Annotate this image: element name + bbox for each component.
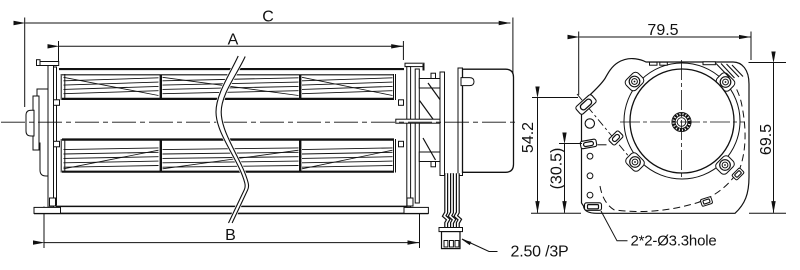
left hub screw upper <box>54 100 60 106</box>
motor boss NE <box>715 71 737 93</box>
connector leader line <box>462 239 498 252</box>
small hole 1 <box>587 153 593 159</box>
dimension C line <box>25 22 510 24</box>
screw SE <box>720 160 731 171</box>
dimension 30.5 line <box>564 144 566 213</box>
motor standoff lower screw <box>431 162 436 167</box>
small tab SE arc 1 <box>732 168 745 181</box>
impeller divider 1 top band <box>160 75 162 100</box>
left top flange lip <box>37 60 41 66</box>
dimension 54.2 line <box>537 98 539 213</box>
impeller top band blades segment 3 <box>302 77 393 95</box>
fan axis centerline <box>1 121 518 123</box>
svg-text:69.5: 69.5 <box>758 124 775 155</box>
small hole 2 <box>587 173 593 179</box>
motor mount plate A <box>440 72 445 176</box>
mounting tab bottom <box>585 203 602 211</box>
motor horizontal centerline <box>620 121 745 123</box>
dimension B extension line left <box>43 207 45 249</box>
impeller top band right edge <box>393 74 395 100</box>
impeller bottom band left edge <box>60 139 62 173</box>
impeller bottom band top edge <box>62 138 394 140</box>
scroll housing outline <box>582 59 750 214</box>
mounting bolt dash-dot line <box>577 94 640 170</box>
impeller divider 2 bottom band <box>299 140 301 172</box>
dimension A line <box>59 45 403 47</box>
impeller top band bottom edge <box>62 98 394 100</box>
mounting rail bottom <box>34 212 428 214</box>
right mounting foot <box>404 207 428 213</box>
right bottom screw <box>407 198 413 206</box>
housing top rail <box>59 68 404 70</box>
right side plate <box>407 67 411 208</box>
dimension 69.5 line <box>773 63 775 213</box>
left bottom screw <box>50 198 56 206</box>
screw NW <box>629 76 640 87</box>
shaft boss knurled ring <box>672 112 691 131</box>
small hole big <box>585 119 594 128</box>
dimension B line <box>45 242 420 244</box>
housing bottom edge <box>56 205 407 207</box>
motor boss SW <box>624 151 646 173</box>
impeller divider 1 bottom band <box>160 140 162 172</box>
impeller bottom band blades segment 1 <box>64 148 159 169</box>
motor standoff upper <box>419 79 440 89</box>
small tab SE arc 2 <box>700 196 713 206</box>
dimension 30.5 extension top <box>559 143 582 145</box>
motor boss NW <box>624 71 646 93</box>
impeller divider 2 top band <box>299 75 301 100</box>
svg-text:(30.5): (30.5) <box>549 148 566 190</box>
top edge notch 2 <box>660 62 668 65</box>
left mounting foot <box>34 207 61 213</box>
motor standoff lower <box>419 152 440 162</box>
left top flange <box>37 62 59 66</box>
left bearing block <box>37 89 48 176</box>
dimension C extension line right <box>512 18 514 81</box>
left inner plate <box>54 67 57 205</box>
connector pin slot 1 <box>444 241 448 248</box>
screw SW <box>630 157 641 168</box>
dimension A extension line left <box>58 41 60 64</box>
shaft boss inner ring <box>675 116 688 129</box>
motor mount plate B <box>458 68 463 176</box>
impeller volute dashed curve <box>600 88 745 212</box>
right top flange <box>405 63 424 66</box>
motor shaft <box>396 119 441 123</box>
impeller top band blades segment 1 <box>64 77 159 95</box>
motor lead wires <box>444 173 460 227</box>
motor ear tab <box>461 78 474 86</box>
impeller top band blades segment 2 <box>163 77 299 95</box>
motor body <box>463 69 514 172</box>
dimension A extension line right <box>402 41 404 60</box>
dimension 79.5 extension line right <box>750 32 752 61</box>
top edge notch 1 <box>650 62 658 65</box>
impeller bottom band bottom edge <box>62 171 394 173</box>
left hub screw lower <box>54 141 60 147</box>
right bracket plate <box>415 69 419 203</box>
left bearing bump <box>26 110 34 136</box>
svg-text:2*2-Ø3.3hole: 2*2-Ø3.3hole <box>631 233 717 250</box>
connector body <box>442 232 461 249</box>
right hub screw upper <box>399 100 404 106</box>
connector pin slot 3 <box>455 241 459 248</box>
svg-text:54.2: 54.2 <box>520 122 537 153</box>
left side plate <box>48 66 54 208</box>
right hub screw lower <box>399 141 404 147</box>
connector cap <box>439 228 463 232</box>
break line mask <box>216 56 249 223</box>
impeller bottom band blades segment 2 <box>163 148 299 169</box>
mounting tab upper-left <box>575 94 597 115</box>
break line left stroke <box>216 56 245 223</box>
motor brace diagonal 1 <box>428 83 441 101</box>
dimension B extension line right <box>419 210 421 249</box>
svg-text:C: C <box>262 8 274 25</box>
right top flange lip <box>423 64 425 71</box>
dimension 69.5 extension bottom <box>749 212 786 214</box>
break line right stroke <box>221 57 248 224</box>
small hole 3 <box>587 192 593 198</box>
svg-text:79.5: 79.5 <box>647 22 678 39</box>
top edge notch 3 <box>703 62 715 65</box>
motor opening circle <box>624 63 740 179</box>
motor brace diagonal 2 <box>420 101 435 121</box>
impeller top band left edge <box>60 74 62 100</box>
dimension 79.5 extension line left <box>578 32 580 96</box>
hole label leader <box>601 211 628 241</box>
shaft center hole <box>677 118 686 127</box>
mounting tab left (30.5 ref) <box>580 139 597 149</box>
motor brace diagonal 3 <box>423 138 436 160</box>
outlet hatch lines <box>716 64 743 79</box>
tab centerline dash <box>598 144 607 146</box>
impeller bottom band right edge <box>393 139 395 173</box>
svg-text:B: B <box>225 227 236 244</box>
motor vertical centerline <box>681 60 683 180</box>
screw NE <box>720 77 731 88</box>
motor standoff upper screw <box>431 73 436 78</box>
dimension C extension line left <box>24 18 26 108</box>
dimension 54.2 extension bottom <box>531 212 581 214</box>
mounting tab mid <box>608 130 624 146</box>
connector pin slot 2 <box>450 241 454 248</box>
motor face circle <box>630 69 734 173</box>
dimension 79.5 line <box>579 36 750 38</box>
svg-text:2.50 /3P: 2.50 /3P <box>511 244 569 261</box>
dimension 54.2 extension top <box>532 97 578 99</box>
impeller bottom band blades segment 3 <box>302 148 393 169</box>
impeller top band top edge <box>62 74 394 76</box>
dimension 69.5 extension top <box>749 62 787 64</box>
svg-text:A: A <box>228 32 239 49</box>
left bearing step <box>33 96 39 150</box>
motor boss SE <box>714 154 736 176</box>
